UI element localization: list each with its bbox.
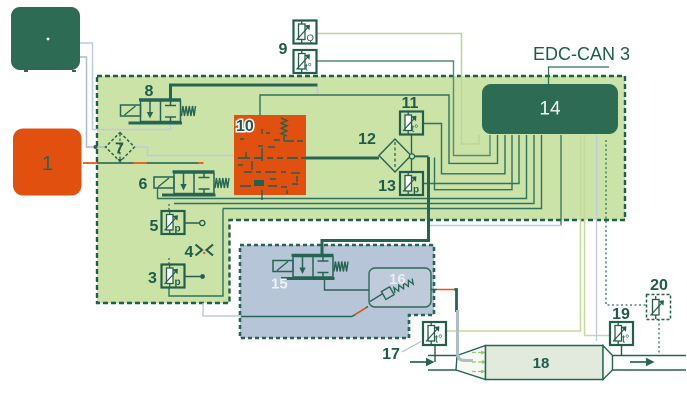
diagonal link to injector 16: [352, 307, 368, 317]
svg-text:3: 3: [148, 270, 157, 287]
lavender wire ECU down: [596, 135, 598, 341]
orange supply wire from tank 1: [83, 162, 204, 164]
sensor 19 (temperature): [610, 322, 633, 356]
sensor 20 (dashed box): [647, 295, 671, 320]
valve 15: [273, 255, 348, 278]
outlet flow arrow: [630, 361, 646, 363]
svg-text:5: 5: [150, 218, 159, 235]
sensor 13 (pressure): [400, 172, 423, 196]
svg-text:20: 20: [650, 277, 668, 294]
line sensor 11 to node to sensor 13: [411, 136, 413, 172]
svg-text:4: 4: [185, 244, 194, 261]
inlet cone: [456, 346, 486, 380]
sensor 17 (temperature): [423, 322, 446, 362]
outlet pipe walls: [613, 356, 687, 371]
svg-text:Q: Q: [307, 33, 314, 44]
blue dosing-unit region: [240, 245, 434, 338]
wire junction to ECU 14: [435, 135, 513, 190]
tank 1 (orange box): [13, 129, 82, 196]
spray arrows: [472, 351, 487, 374]
wire sensor 3 loop: [169, 209, 223, 297]
svg-text:16: 16: [389, 271, 406, 288]
wire from control unit to filter 7: [80, 57, 106, 147]
sensor 9a (flow Q): [294, 21, 317, 45]
wire filter 7 to pump module 10 (lavender): [135, 147, 235, 156]
svg-text:p: p: [175, 224, 181, 235]
lavender wire to dosing region: [430, 225, 561, 227]
thick pneumatic line junction to valve 15: [322, 157, 429, 257]
wire ECU 14 down right (to x561): [560, 135, 562, 226]
svg-text:t°: t°: [412, 124, 419, 135]
orange overlay on diagonal: [355, 308, 366, 315]
thick line pump 10 to filter 12: [306, 157, 379, 160]
sensor 11 (temperature): [400, 112, 423, 136]
lavender drop at end of valve-8 line: [317, 87, 319, 96]
svg-text:7: 7: [115, 141, 124, 158]
node junction: [409, 154, 414, 159]
valve 8: [121, 100, 196, 123]
svg-text:11: 11: [402, 95, 419, 112]
dotted stub above sensor 3: [168, 258, 170, 264]
svg-text:p: p: [175, 277, 181, 288]
wire sensors 3/5 to ECU 14: [223, 135, 542, 209]
muffler 18: [486, 346, 604, 380]
wire sensor 13 to ECU 14: [423, 135, 519, 184]
sensor 3 (pressure): [162, 265, 205, 289]
pump module 10 (orange block): [234, 115, 306, 200]
thick pneumatic line valve 8 to top: [171, 85, 318, 101]
line junction node to thick drop: [411, 155, 429, 157]
valve 6: [154, 172, 229, 195]
svg-text:EDC-CAN 3: EDC-CAN 3: [533, 44, 630, 64]
injection tube into cone: [458, 310, 474, 361]
leader line EDC-CAN 3 to ECU: [549, 67, 610, 84]
svg-text:t°: t°: [622, 334, 629, 346]
control unit (dark green box, top-left): [11, 7, 80, 70]
svg-text:12: 12: [358, 131, 376, 148]
ECU 14 (dark green box): [482, 84, 618, 134]
wire pump module 10 top to ECU 14: [260, 95, 498, 163]
filter 7 (diamond): [106, 133, 135, 164]
sensor 9b (temperature): [294, 50, 317, 74]
svg-text:13: 13: [378, 178, 396, 195]
wire dark segment: [97, 162, 198, 164]
dotted stub above sensor 5: [168, 204, 170, 211]
wire sensor 11 to ECU 14: [423, 124, 505, 174]
svg-text:t°: t°: [435, 334, 442, 346]
svg-text:18: 18: [533, 355, 550, 372]
svg-text:6: 6: [139, 176, 148, 193]
wire valve 6 to ECU 14: [157, 135, 527, 199]
svg-text:14: 14: [539, 99, 561, 120]
svg-text:t°: t°: [305, 63, 312, 74]
svg-text:1: 1: [42, 153, 53, 175]
svg-text:8: 8: [145, 83, 154, 100]
pale wire ECU to sensor 17: [447, 135, 581, 331]
inlet pipe walls: [428, 356, 457, 371]
green control region (system boundary): [97, 76, 625, 303]
dotted wire ECU to sensor 20: [606, 140, 648, 305]
return line in dosing unit: [241, 316, 352, 318]
dotted wire sensor 20 to pipe: [658, 319, 660, 356]
dosing line 16 to exhaust (orange then dark): [431, 289, 437, 291]
coupling 4: [196, 245, 214, 256]
svg-text:10: 10: [236, 118, 254, 135]
node on wire at filter 7: [94, 145, 98, 149]
wire valve bank to ECU 14: [174, 135, 534, 204]
filter 12 (diamond): [379, 139, 411, 172]
svg-text:19: 19: [612, 306, 630, 323]
wire valve 6 bottom stub: [157, 188, 159, 199]
wire sensor 9a to ECU 14: [317, 34, 479, 145]
svg-text:17: 17: [382, 346, 400, 363]
svg-text:15: 15: [271, 276, 288, 293]
pale wire ECU to sensor 19: [585, 135, 611, 336]
pointer line label 17: [402, 342, 421, 353]
svg-text:p: p: [413, 185, 419, 196]
wire from control unit to valve 8 (lavender): [80, 43, 171, 130]
sensor 5 (pressure): [162, 211, 205, 235]
injector 16 (rounded box): [369, 268, 431, 307]
lavender wire from region to dosing unit: [203, 303, 241, 316]
wire sensor 9b to ECU 14: [317, 61, 490, 156]
svg-text:9: 9: [279, 41, 288, 58]
wire valve 15 to injector 16: [325, 277, 370, 290]
inlet flow arrow: [410, 361, 426, 363]
outlet cone: [603, 346, 613, 380]
